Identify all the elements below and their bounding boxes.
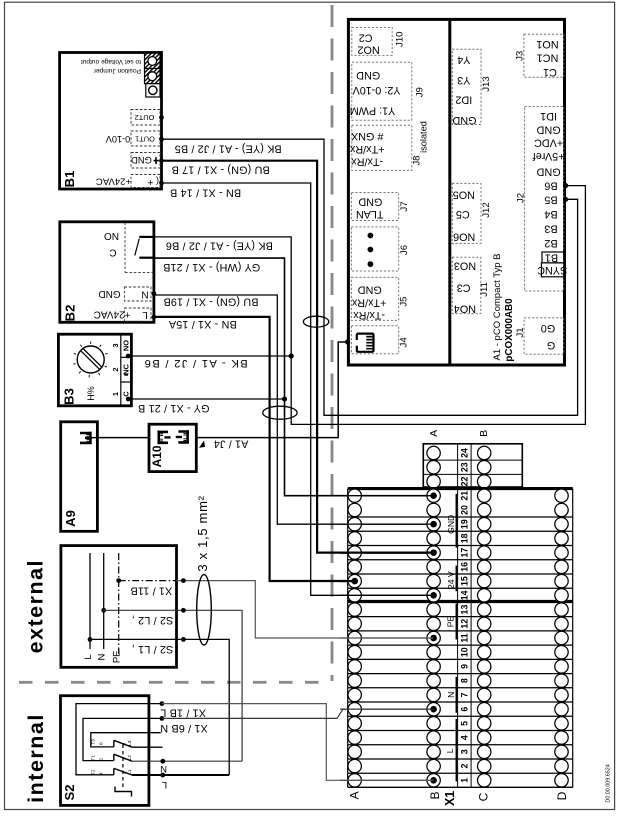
- svg-text:24 V: 24 V: [446, 571, 456, 589]
- X1 group bracket PE rows 11-13: [455, 604, 457, 640]
- svg-text:(: (: [156, 176, 159, 186]
- svg-text:BN - X1 / 15A: BN - X1 / 15A: [168, 318, 237, 330]
- svg-text:0-10V: 0-10V: [105, 134, 130, 144]
- wire PE to X1/11B (dash-dot inside box): [119, 580, 177, 582]
- svg-text:+5Vref: +5Vref: [532, 150, 565, 162]
- connector J1: [524, 318, 564, 354]
- svg-text:A10: A10: [150, 445, 164, 467]
- arrow marker at A1/J4 label: [200, 442, 205, 448]
- svg-text:+Tx/Rx: +Tx/Rx: [351, 296, 386, 308]
- S2 internal wire N (to X1/6B): [83, 718, 162, 760]
- svg-text:3: 3: [111, 343, 120, 347]
- svg-text:D: D: [555, 791, 569, 800]
- connector J9: [352, 62, 412, 120]
- svg-text:NO4: NO4: [454, 303, 476, 315]
- svg-text:17: 17: [459, 548, 469, 558]
- wire A10 to A1 J4: [196, 342, 347, 438]
- svg-text:J3: J3: [514, 51, 525, 61]
- S2 pole 2 output L2: [132, 760, 242, 762]
- connector J3: [524, 34, 564, 77]
- svg-text:internal: internal: [24, 713, 48, 803]
- svg-text:L1: L1: [127, 769, 133, 775]
- X1 group bracket N rows 6-8: [455, 677, 457, 713]
- svg-text:L: L: [445, 748, 455, 753]
- svg-text:2: 2: [98, 758, 104, 761]
- svg-text:J9: J9: [415, 87, 426, 97]
- B2 relay contact dashed outline: [124, 223, 126, 273]
- svg-text:1: 1: [111, 392, 120, 396]
- wire S2 L to X1/1B: [162, 704, 434, 781]
- svg-text:B5: B5: [544, 193, 557, 205]
- svg-text:J12: J12: [481, 202, 492, 217]
- svg-text:L2: L2: [127, 755, 133, 761]
- svg-text:9: 9: [459, 664, 469, 669]
- svg-text:external: external: [23, 559, 47, 653]
- svg-text:15: 15: [459, 576, 469, 586]
- svg-text:1: 1: [459, 778, 469, 783]
- S2 pole 1 contact: [113, 768, 115, 774]
- svg-text:8: 8: [459, 678, 469, 683]
- connector J10: [352, 28, 392, 56]
- svg-text:B1: B1: [62, 171, 77, 188]
- svg-text:4: 4: [459, 735, 469, 740]
- B1 terminal OUT2: [131, 110, 160, 126]
- svg-text:13: 13: [459, 605, 469, 615]
- wire BK (YE) B2 NO to A1 J2 B6: [154, 186, 586, 425]
- wire A9 to A10: [92, 437, 149, 439]
- svg-text:A9: A9: [63, 510, 78, 527]
- svg-text:OUT1: OUT1: [135, 134, 155, 143]
- svg-text:2: 2: [459, 764, 469, 769]
- svg-text:GND: GND: [98, 288, 120, 299]
- svg-text:GY - X1 / 21 B: GY - X1 / 21 B: [138, 402, 210, 414]
- svg-text:C2: C2: [359, 32, 373, 44]
- svg-text:BU (GN) - X1 / 19B: BU (GN) - X1 / 19B: [163, 296, 258, 308]
- svg-text:L: L: [142, 309, 148, 320]
- svg-text:pCOX000AB0: pCOX000AB0: [504, 298, 515, 362]
- X1 group bracket GND rows 17-21: [455, 494, 457, 548]
- svg-text:23: 23: [459, 462, 469, 472]
- svg-text:C3: C3: [457, 282, 471, 294]
- wire GY B3 C joining X1/21B wire: [128, 398, 284, 400]
- S2 pole 1 output L1: [132, 774, 229, 776]
- cable ellipse around B1 wires: [303, 316, 328, 327]
- cable ellipse around B2 wires: [263, 406, 297, 419]
- svg-text:GND: GND: [131, 155, 152, 166]
- svg-text:# GNX: # GNX: [351, 130, 383, 142]
- connector J2: [525, 107, 564, 292]
- svg-text:Position Jumper: Position Jumper: [93, 67, 141, 74]
- svg-text:GND: GND: [446, 515, 456, 534]
- svg-text:X1 / 11B: X1 / 11B: [130, 585, 172, 597]
- svg-text:J6: J6: [399, 245, 410, 255]
- svg-text:L: L: [83, 654, 94, 659]
- J4 pin dot: [345, 339, 350, 344]
- svg-text:L3: L3: [127, 740, 133, 746]
- B1 terminal +24VAC: [131, 175, 160, 188]
- svg-text:ID1: ID1: [540, 110, 557, 122]
- svg-text:B6: B6: [544, 180, 557, 192]
- svg-text:+Tx/Rx: +Tx/Rx: [349, 143, 384, 155]
- svg-text:C5: C5: [456, 208, 470, 220]
- wire L to S2/L1: [90, 639, 229, 775]
- svg-text:16: 16: [459, 562, 469, 572]
- connector J8: [352, 125, 412, 170]
- B3 rotary dial: [77, 346, 104, 373]
- svg-text:4: 4: [98, 772, 104, 775]
- svg-text:J5: J5: [399, 297, 410, 307]
- S2 pole 3 contact: [113, 740, 115, 747]
- svg-text:NO2: NO2: [357, 44, 379, 56]
- connector J13: [452, 49, 481, 124]
- svg-text:20: 20: [459, 505, 469, 515]
- svg-text:C: C: [476, 792, 490, 801]
- B3 terminal column: [120, 335, 122, 405]
- svg-text:GND: GND: [452, 114, 476, 126]
- svg-text:3: 3: [121, 757, 127, 760]
- external supply box: [61, 546, 177, 668]
- X1 main section frame: [348, 487, 573, 490]
- svg-text:A1 / J4: A1 / J4: [214, 438, 249, 450]
- svg-text:19: 19: [459, 519, 469, 529]
- wire GY (WH) B2 C to X1/21B: [154, 258, 434, 496]
- B2 terminal L +24VAC: [124, 308, 151, 321]
- svg-text:GND: GND: [358, 283, 382, 295]
- X1 group bracket L rows 1-5: [455, 719, 457, 781]
- terminal strip X1 upper section rows 22-24: [423, 444, 522, 487]
- svg-text:S2 / L2 ,: S2 / L2 ,: [132, 614, 174, 626]
- svg-text:Y3: Y3: [457, 74, 470, 86]
- connector J7: [351, 193, 398, 221]
- svg-text:C: C: [109, 247, 116, 258]
- J2 pin B1 boxed: [542, 252, 564, 263]
- S2 linkage dashed: [122, 745, 124, 788]
- svg-text:BK (YE) - A1 / J2 / B6: BK (YE) - A1 / J2 / B6: [166, 240, 273, 252]
- svg-text:2: 2: [111, 367, 120, 371]
- svg-text:S2: S2: [62, 785, 77, 801]
- main switch S2 box: [61, 696, 149, 806]
- boundary dashed line horizontal (internal/external): [19, 681, 331, 684]
- X1 terminal circles columns A B C D: [348, 774, 361, 787]
- A9 connector icon: [80, 432, 90, 445]
- svg-text:1: 1: [121, 772, 127, 775]
- PE conductor (dash-dot): [118, 553, 120, 654]
- svg-text:PE.: PE.: [111, 648, 122, 663]
- svg-text:5: 5: [121, 743, 127, 746]
- svg-text:B: B: [478, 430, 490, 437]
- svg-text:3: 3: [459, 749, 469, 754]
- svg-text:NO1: NO1: [536, 38, 558, 50]
- svg-text:NC: NC: [122, 364, 131, 375]
- wire BU (GN) B2 N to X1/19B: [154, 295, 434, 524]
- svg-text:21: 21: [459, 491, 469, 501]
- S2 internal wire L (to X1/1B): [76, 704, 162, 775]
- svg-text:BK (YE) - A1 / J2 / B5: BK (YE) - A1 / J2 / B5: [175, 142, 282, 154]
- J2 pin dots B6 B5: [563, 183, 568, 188]
- N conductor: [103, 553, 105, 649]
- svg-text:GND: GND: [356, 69, 380, 81]
- svg-text:to set Voltage output: to set Voltage output: [81, 58, 141, 65]
- svg-text:6: 6: [98, 742, 104, 745]
- svg-text:B3: B3: [544, 223, 557, 235]
- wire BK (YE) B1 OUT1 to A1 J2 B5: [162, 139, 578, 415]
- svg-text:10: 10: [459, 647, 469, 657]
- X1 upper section number cells: [457, 444, 459, 487]
- X1 row separator lines: [348, 786, 573, 788]
- S2 third pole input stub: [91, 733, 161, 747]
- svg-text:NO3: NO3: [454, 260, 476, 272]
- svg-text:B2: B2: [63, 305, 78, 322]
- connector J4 telephone jack: [351, 326, 398, 354]
- svg-text:Y4: Y4: [457, 54, 470, 66]
- svg-text:B: B: [428, 791, 442, 799]
- svg-text:N: N: [446, 692, 456, 698]
- svg-text:OUT2: OUT2: [135, 113, 155, 122]
- X1 group bracket 24V rows 14-16: [455, 566, 457, 592]
- X1 upper section circles: [427, 475, 440, 488]
- svg-text:A: A: [428, 430, 440, 437]
- S2 pole 2 contact: [113, 754, 115, 760]
- svg-text:J7: J7: [399, 201, 410, 211]
- svg-text:+VDC: +VDC: [534, 137, 563, 149]
- module A9 box: [61, 422, 98, 532]
- A10 plug icon right: [178, 430, 189, 444]
- svg-text:+: +: [147, 176, 153, 187]
- X1 connection dots: [430, 492, 437, 499]
- S2 pole 3 output stub L3: [132, 746, 163, 748]
- svg-text:BK - A1 / J2 / B6: BK - A1 / J2 / B6: [143, 357, 247, 369]
- svg-text:PE: PE: [445, 616, 455, 628]
- svg-text:+24VAC: +24VAC: [96, 176, 131, 187]
- boundary dashed line vertical (internal/external): [331, 5, 334, 681]
- svg-text:12: 12: [459, 619, 469, 629]
- junction dots on conductors: [88, 637, 93, 642]
- svg-text:J13: J13: [481, 76, 492, 91]
- wire N to S2/L2: [104, 610, 242, 761]
- svg-text:T3: T3: [91, 739, 97, 745]
- svg-text:7: 7: [459, 692, 469, 697]
- B1 pin dots: [159, 115, 164, 120]
- wire BN B2 L to X1/15A: [154, 317, 355, 581]
- svg-text:NO: NO: [104, 230, 119, 241]
- cable symbol 3x1.5mm ellipse: [197, 575, 212, 645]
- B1 terminal GND: [131, 153, 160, 169]
- connector J6: [351, 227, 398, 271]
- connector J11: [452, 257, 481, 313]
- svg-text:J10: J10: [395, 31, 406, 46]
- svg-text:3 x 1,5 mm²: 3 x 1,5 mm²: [195, 495, 210, 571]
- controller B1 box: [60, 53, 162, 190]
- svg-text:J8: J8: [412, 156, 423, 166]
- svg-text:J2: J2: [516, 193, 527, 203]
- svg-text:J11: J11: [479, 282, 490, 297]
- svg-text:B3: B3: [62, 388, 77, 405]
- svg-text:NO6: NO6: [453, 230, 475, 242]
- svg-text:L: L: [162, 779, 167, 790]
- svg-text:SYNC: SYNC: [537, 264, 567, 276]
- svg-text:NC1: NC1: [537, 52, 559, 64]
- B1 jumper caption: [81, 58, 141, 74]
- wire BU (GN) B1 GND to X1/17B: [162, 161, 434, 553]
- B2 relay contact: [139, 236, 153, 238]
- svg-text:X1 / 1B L: X1 / 1B L: [160, 707, 206, 719]
- svg-text:TLAN: TLAN: [356, 208, 384, 220]
- svg-text:N: N: [160, 763, 167, 774]
- svg-text:14: 14: [459, 590, 469, 600]
- svg-text:Y2: 0-10V: Y2: 0-10V: [352, 84, 401, 96]
- wire BN B1 +24VAC to X1/14B: [162, 183, 434, 595]
- wire S2 N to X1/6B: [162, 709, 434, 718]
- svg-text:GND: GND: [536, 123, 560, 135]
- svg-text:-Tx/Rx: -Tx/Rx: [353, 309, 385, 321]
- X1 number column borders: [457, 489, 459, 788]
- svg-text:A: A: [348, 791, 362, 799]
- svg-text:N: N: [141, 288, 148, 299]
- svg-text:T2: T2: [91, 769, 97, 775]
- svg-text:GY (WH) - X1 / 21B: GY (WH) - X1 / 21B: [163, 261, 260, 273]
- controller A1 block: [348, 19, 564, 365]
- svg-text:X1 / 6B N: X1 / 6B N: [160, 722, 208, 734]
- svg-text:G: G: [547, 339, 555, 351]
- svg-text:T1: T1: [91, 755, 97, 761]
- svg-text:ID2: ID2: [455, 94, 472, 106]
- svg-text:isolated: isolated: [419, 121, 429, 153]
- B3 pin dots: [126, 354, 131, 359]
- wire BK B3 NO joining B6 wire: [128, 355, 291, 357]
- L conductor: [89, 553, 91, 649]
- S2 handle: [115, 787, 132, 797]
- svg-text:J4: J4: [398, 337, 409, 348]
- J2 pin SYNC boxed: [541, 263, 564, 277]
- relay module B2 box: [60, 222, 154, 322]
- svg-text:C1: C1: [543, 66, 557, 78]
- A10 plug icon left: [157, 431, 168, 445]
- svg-text:A1 - pCO Compact Typ B: A1 - pCO Compact Typ B: [492, 253, 503, 360]
- svg-text:11: 11: [459, 633, 469, 642]
- svg-text:BN - X1 / 14 B: BN - X1 / 14 B: [170, 187, 241, 199]
- wire overlay segments into X1 dots: [340, 495, 434, 497]
- svg-text:B2: B2: [544, 237, 557, 249]
- svg-text:S2 / L1 ,: S2 / L1 ,: [132, 643, 174, 655]
- svg-text:B4: B4: [544, 208, 557, 220]
- svg-text:6: 6: [459, 707, 469, 712]
- svg-text:X1: X1: [443, 791, 457, 806]
- svg-text:18: 18: [459, 533, 469, 543]
- svg-text:22: 22: [459, 476, 469, 486]
- A1 internal divider: [448, 21, 451, 364]
- svg-text:N: N: [97, 653, 108, 660]
- svg-text:H%: H%: [86, 386, 96, 401]
- svg-text:Y1: PWM: Y1: PWM: [350, 105, 396, 117]
- svg-text:24: 24: [459, 448, 469, 458]
- connector J5: [351, 277, 398, 320]
- B2 pin dots: [152, 291, 157, 296]
- svg-text:B1: B1: [545, 252, 558, 264]
- svg-text:GND: GND: [536, 166, 560, 178]
- B2 terminal N GND: [124, 287, 151, 301]
- svg-text:GND: GND: [358, 195, 382, 207]
- svg-text:C: C: [122, 391, 131, 397]
- svg-text:-Tx/Rx: -Tx/Rx: [351, 155, 383, 167]
- svg-text:NO5: NO5: [453, 189, 475, 201]
- humidistat B3 box: [58, 334, 131, 406]
- svg-text:NO: NO: [122, 340, 131, 351]
- svg-text:D0.00.009.6524: D0.00.009.6524: [606, 764, 612, 802]
- B1 terminal OUT1 0-10V: [131, 131, 160, 146]
- svg-text:G0: G0: [541, 322, 555, 334]
- svg-text:BU (GN) - X1 / 17 B: BU (GN) - X1 / 17 B: [171, 164, 269, 176]
- svg-text:J1: J1: [515, 327, 526, 337]
- connector J12: [452, 183, 481, 243]
- S2 exit dots: [160, 701, 165, 706]
- svg-text:+24VAC: +24VAC: [94, 309, 131, 320]
- svg-text:5: 5: [459, 721, 469, 726]
- B1 jumper block: [145, 53, 161, 83]
- connector A10 box: [149, 424, 196, 471]
